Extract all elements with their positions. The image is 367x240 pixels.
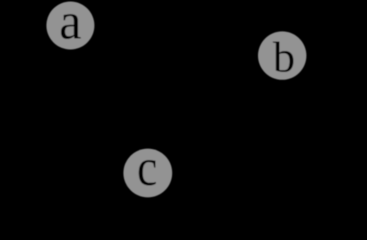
svg-text:c: c (137, 138, 157, 197)
svg-text:a: a (59, 0, 81, 51)
svg-text:b: b (273, 33, 295, 82)
